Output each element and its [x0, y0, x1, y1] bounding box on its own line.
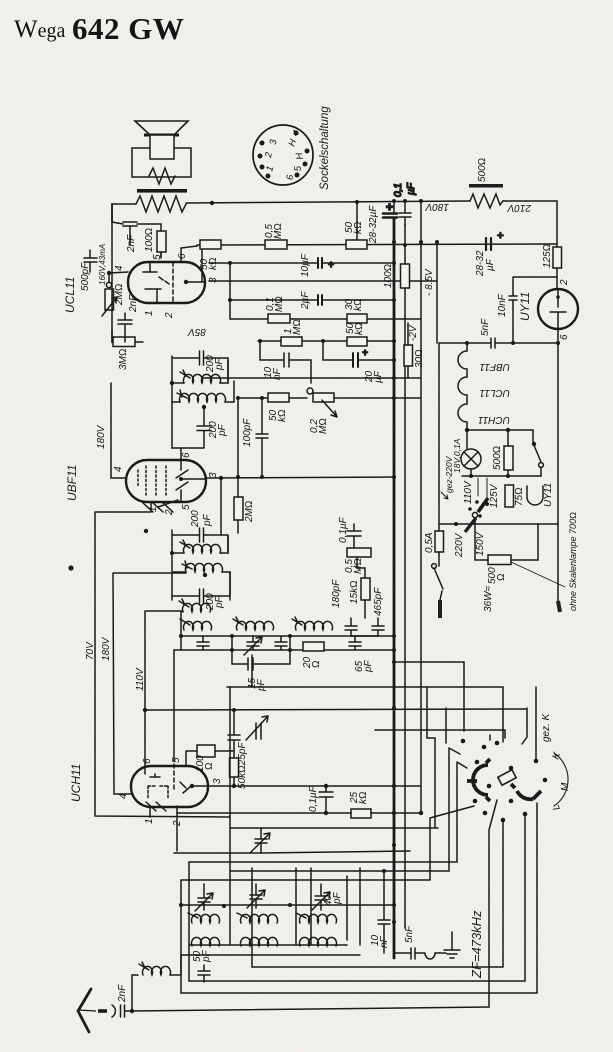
svg-text:1: 1 — [148, 506, 159, 512]
svg-text:180V: 180V — [101, 636, 112, 661]
resistor 50k vol — [268, 393, 289, 402]
svg-text:180V: 180V — [424, 201, 449, 212]
capacitor 100pF — [256, 396, 268, 479]
svg-text:UBF11: UBF11 — [65, 465, 79, 501]
trimmer cap L2 — [244, 636, 262, 655]
mains transformer 500ohm — [488, 555, 511, 565]
svg-text:85V: 85V — [187, 326, 206, 337]
svg-text:4: 4 — [113, 466, 124, 472]
svg-text:10nF: 10nF — [497, 293, 508, 317]
ant coil K bottom — [192, 937, 220, 946]
wire mains left — [440, 591, 442, 600]
svg-text:6: 6 — [142, 758, 153, 764]
capacitor 0,1uF UCH — [319, 786, 333, 813]
voltage tap wedge — [468, 498, 488, 518]
capacitor 0,1uF pair — [383, 182, 417, 226]
UBF11 heater hash — [143, 500, 178, 512]
UCH11 internal electrodes — [145, 757, 216, 798]
svg-text:Wega: Wega — [14, 16, 65, 43]
svg-text:6: 6 — [559, 334, 570, 340]
wire y300 seg — [230, 299, 394, 301]
svg-text:1: 1 — [144, 818, 155, 824]
transformer core bar — [137, 189, 187, 193]
capacitor 10uF — [318, 258, 334, 271]
svg-text:2: 2 — [559, 279, 570, 286]
svg-text:5nF: 5nF — [404, 925, 415, 943]
speaker cone mouth bar — [144, 134, 179, 137]
svg-text:UBF11: UBF11 — [480, 361, 510, 372]
svg-text:36W≈: 36W≈ — [483, 585, 494, 612]
svg-text:nF: nF — [272, 367, 283, 380]
svg-text:0,1µF: 0,1µF — [308, 785, 319, 812]
capacitor 10nF UY11 — [509, 277, 557, 343]
wire y708 — [145, 709, 527, 710]
capacitor pad L3 — [275, 636, 287, 650]
svg-text:125V: 125V — [489, 483, 500, 508]
capacitor 500pF UCL11 — [84, 250, 97, 272]
resistor 2Mohm AVC — [234, 497, 243, 520]
wire right edge power — [557, 343, 559, 524]
ant coil L bottom — [299, 937, 336, 946]
trimmer cap osc — [246, 716, 268, 740]
ant coil M top — [237, 913, 278, 923]
switch nest wire D — [189, 762, 467, 862]
resistor 20ohm — [303, 642, 324, 651]
rotary direction arrow — [441, 492, 448, 499]
svg-text:MΩ: MΩ — [292, 319, 303, 335]
speaker LS1 neck — [150, 135, 174, 159]
resistor 500ohm mains dropper bar — [469, 184, 503, 188]
pilot lamp — [461, 449, 481, 469]
svg-text:pF: pF — [332, 891, 343, 905]
svg-text:UY11: UY11 — [518, 292, 532, 321]
svg-text:75Ω: 75Ω — [514, 487, 525, 506]
capacitor 465pF — [372, 618, 384, 636]
volume pot line — [238, 397, 421, 399]
svg-text:100Ω: 100Ω — [383, 264, 394, 288]
svg-text:220V: 220V — [454, 532, 465, 558]
svg-text:0,5A: 0,5A — [424, 532, 435, 553]
capacitor pad L1 — [197, 636, 209, 650]
antenna coupling cap 2nF — [112, 975, 134, 1017]
resistor 50k mix — [230, 758, 239, 777]
vertical rail x407 — [404, 224, 406, 928]
svg-text:pF: pF — [217, 423, 228, 437]
svg-text:50kΩ25pF: 50kΩ25pF — [237, 742, 248, 789]
ground symbol — [444, 940, 460, 958]
UBF11 pin3 wire — [206, 477, 394, 535]
svg-text:Ω: Ω — [204, 762, 215, 770]
UBF11 internal electrodes — [138, 460, 206, 502]
UCH11 heater hash — [146, 802, 177, 851]
svg-text:500Ω: 500Ω — [477, 158, 488, 182]
capacitor 200pF IF1b — [172, 407, 211, 448]
svg-text:180pF: 180pF — [331, 579, 342, 608]
heater chain wire with humps — [458, 343, 467, 449]
resistor 30ohm bias — [404, 345, 413, 366]
wire HT top rail — [186, 201, 470, 203]
svg-text:0,1: 0,1 — [393, 183, 404, 197]
capacitor 50pF — [198, 965, 210, 982]
UCL11 internal electrodes — [143, 246, 205, 303]
band indicator arc — [554, 753, 568, 806]
chassis wire x112 upper — [111, 204, 113, 342]
bus line y245 — [197, 244, 557, 245]
svg-text:15kΩ: 15kΩ — [349, 580, 360, 604]
band bus y905 — [181, 904, 394, 906]
grid pot 2Mohm — [102, 271, 128, 316]
svg-text:2nF: 2nF — [126, 234, 137, 253]
pot wiper circle — [307, 388, 313, 394]
wire y263 seg — [209, 262, 394, 264]
wire mains transformer — [475, 518, 538, 560]
wire screen — [137, 224, 161, 258]
main HT vertical thick rail — [393, 218, 396, 958]
svg-text:100pF: 100pF — [242, 418, 253, 447]
wire y687 — [227, 686, 503, 688]
capacitor 200pF IF2b — [172, 572, 230, 603]
resistor 125ohm — [553, 247, 562, 268]
wire y476 row — [462, 475, 541, 477]
capacitor 5nF out — [411, 948, 415, 959]
wire UBF anode supply — [111, 383, 126, 478]
wire y524 row — [439, 523, 558, 525]
svg-text:µF: µF — [485, 258, 496, 271]
wire y650 — [174, 649, 394, 651]
bus line y341 — [258, 340, 394, 342]
wire mains right — [557, 524, 559, 601]
svg-text:pF: pF — [214, 357, 225, 371]
capacitor 10nF IF out — [378, 869, 390, 953]
ant coil L top — [296, 913, 336, 923]
connector x232 — [231, 636, 233, 650]
UY11 heater loop — [527, 486, 543, 505]
trimmer cap band1 — [195, 884, 213, 911]
band switch wiper bar — [498, 770, 516, 785]
svg-text:5nF: 5nF — [480, 318, 491, 336]
deep nest wire D1 — [489, 800, 497, 1007]
vertical rail x421 — [420, 201, 422, 813]
wire y853 — [174, 851, 410, 853]
wire x230 connector — [229, 263, 231, 319]
resistor 25k — [351, 809, 371, 818]
junction dot pin6 UCH — [143, 708, 147, 712]
UBF11 pin labels — [113, 452, 219, 516]
svg-text:160V,43mA: 160V,43mA — [98, 244, 107, 285]
resistor 150k — [347, 337, 367, 346]
antenna symbol — [78, 989, 107, 1032]
T2 wiring — [170, 356, 234, 448]
IF transformer T2 primary — [180, 370, 221, 383]
wire ground feed — [451, 932, 453, 940]
wire 125ohm to UY11 pin2 — [556, 268, 558, 289]
svg-text:+: + — [328, 260, 334, 271]
svg-text:- 8.5V: - 8.5V — [424, 268, 435, 296]
switch nest wire B — [427, 738, 435, 828]
band switch contact dots — [461, 739, 548, 823]
svg-text:UCH11: UCH11 — [69, 764, 83, 802]
wire 30ohm leads — [407, 323, 409, 378]
trimmer cap band3 40pF — [312, 884, 330, 910]
svg-text:MΩ: MΩ — [273, 223, 284, 239]
110V rail x145 — [145, 611, 183, 766]
svg-text:UCH11: UCH11 — [478, 414, 510, 425]
rectifier tube UY11 — [538, 289, 578, 329]
svg-text:0,1µF: 0,1µF — [338, 516, 349, 543]
125V tap lead — [486, 478, 488, 503]
svg-text:30Ω: 30Ω — [414, 349, 425, 368]
UCH11 pin labels — [118, 757, 223, 827]
svg-text:Sockelschaltung: Sockelschaltung — [319, 106, 331, 190]
wire 50k HT lead — [356, 202, 358, 240]
svg-text:28-32µF: 28-32µF — [368, 205, 379, 244]
socket pin labels — [263, 128, 306, 180]
capacitor 2uF — [318, 295, 322, 305]
primary winding zigzag R — [136, 196, 186, 212]
svg-text:642 GW: 642 GW — [72, 11, 184, 46]
svg-text:-2V: -2V — [408, 324, 419, 341]
resistor 50k HT — [346, 240, 367, 249]
svg-text:210V: 210V — [506, 202, 532, 213]
capacitor 5nF mains — [491, 338, 495, 348]
pot 0,2Mohm — [313, 393, 337, 417]
svg-text:gez. K: gez. K — [541, 712, 552, 742]
capacitor 15pF — [230, 648, 292, 687]
leader line ohne Skalenlampe — [511, 562, 565, 587]
hexode UCH11 — [131, 766, 208, 807]
wire vertical x230 — [229, 687, 231, 876]
180V rail x113 — [113, 573, 186, 794]
wire lamp row — [467, 430, 508, 476]
svg-text:nF: nF — [379, 935, 390, 948]
svg-text:180V: 180V — [96, 424, 107, 449]
svg-text:Ω: Ω — [496, 573, 507, 581]
deep nest wire D2 — [252, 820, 503, 967]
switch nest wire C — [230, 748, 460, 871]
switch S2 — [465, 428, 544, 476]
resistor 0,1Mohm — [268, 314, 290, 323]
resistor 15k osc — [361, 578, 370, 600]
UCL11 pin labels — [114, 253, 219, 319]
resistor 0,5Mohm — [265, 240, 287, 249]
bus line y281 — [209, 280, 437, 282]
svg-text:pF: pF — [363, 659, 374, 673]
capacitor 0,1uF AF — [347, 524, 361, 548]
svg-text:2MΩ: 2MΩ — [114, 283, 125, 306]
ink blemish dot — [68, 565, 73, 570]
antenna bottom line — [132, 1007, 489, 1011]
socket pin dots — [258, 131, 310, 179]
resistor 75ohm — [505, 485, 514, 507]
svg-text:3: 3 — [208, 277, 219, 283]
switch nest wire E — [181, 806, 474, 880]
svg-text:kΩ: kΩ — [353, 221, 364, 234]
svg-text:500Ω: 500Ω — [492, 446, 503, 470]
svg-text:kΩ: kΩ — [354, 322, 365, 335]
IF transformer T2 secondary — [177, 390, 226, 402]
svg-text:UY11: UY11 — [543, 483, 554, 507]
svg-text:2: 2 — [164, 509, 175, 516]
output transformer frame — [132, 148, 191, 177]
resistor 30k — [347, 314, 367, 323]
svg-text:3: 3 — [208, 472, 219, 478]
capacitor 200pF IF2a — [172, 528, 228, 553]
svg-text:µF: µF — [373, 370, 384, 383]
svg-text:MΩ: MΩ — [318, 418, 329, 434]
bus line y319 — [230, 318, 421, 320]
band filter bottom wires — [181, 945, 360, 955]
svg-text:Ω: Ω — [311, 660, 322, 668]
svg-text:2nF: 2nF — [117, 984, 128, 1003]
svg-text:MΩ: MΩ — [274, 296, 285, 312]
capacitor 10nF det — [258, 339, 311, 383]
svg-text:UCL11: UCL11 — [480, 387, 510, 398]
resistor 500ohm shunt — [504, 446, 513, 470]
deep nest wire D4 — [181, 803, 537, 993]
svg-text:10µF: 10µF — [300, 253, 311, 277]
diode-pentode UBF11 — [126, 460, 206, 502]
band switch right contact arc — [511, 784, 541, 799]
mains lead left stub — [438, 600, 442, 618]
svg-text:M: M — [560, 782, 571, 791]
triode-pentode UCL11 — [128, 262, 205, 303]
svg-text:6: 6 — [177, 253, 188, 259]
field coil zigzag inside frame — [149, 168, 175, 184]
svg-text:UCL11: UCL11 — [63, 277, 77, 313]
svg-text:1: 1 — [144, 310, 155, 316]
speaker LS1 cone — [135, 121, 188, 135]
AVC line y813 — [177, 812, 421, 814]
resistor 500ohm zigzag — [470, 194, 503, 208]
band coil L1 — [180, 619, 211, 630]
svg-text:kΩ: kΩ — [277, 409, 288, 422]
capacitor 65pF — [349, 636, 361, 650]
IF transformer T3 secondary — [182, 561, 223, 577]
svg-text:ohne Skalenlampe 700Ω: ohne Skalenlampe 700Ω — [568, 512, 578, 611]
70V rail x95 — [95, 502, 230, 817]
wire y662 — [394, 661, 464, 663]
ant coil M bottom — [240, 937, 277, 946]
svg-text:+: + — [362, 348, 368, 359]
wire y826 — [230, 827, 438, 829]
svg-text:pF: pF — [202, 513, 213, 527]
wire osc coil left connector — [180, 612, 182, 650]
ant input coil — [132, 955, 181, 975]
110V tap lead — [477, 478, 479, 496]
capacitor 25pF — [228, 708, 240, 758]
wire speaker loop left — [112, 204, 136, 222]
svg-text:5: 5 — [171, 757, 182, 763]
IF transformer T3 primary — [180, 540, 221, 553]
svg-text:2nF: 2nF — [128, 294, 139, 313]
wire y636 — [180, 635, 394, 637]
wire 210V to rectifier — [503, 201, 557, 247]
svg-text:+: + — [386, 200, 393, 214]
oscillator coil — [179, 599, 211, 612]
svg-text:2: 2 — [172, 820, 183, 827]
switch nest wire A — [375, 730, 505, 740]
svg-text:5: 5 — [152, 254, 163, 260]
resistor 50k grid2 — [200, 240, 221, 249]
resistor 0,5Mohm AF — [347, 548, 371, 557]
svg-text:110V: 110V — [135, 667, 146, 691]
anode line y786 — [216, 785, 421, 787]
band switch left contact arc — [467, 759, 490, 801]
junction dot stray — [144, 529, 148, 533]
bus line y378 — [203, 377, 421, 379]
wire vertical x174 — [173, 650, 175, 757]
svg-text:MΩ: MΩ — [353, 558, 364, 574]
junction dots rails — [392, 199, 439, 924]
svg-text:2MΩ: 2MΩ — [244, 500, 255, 523]
svg-text:4: 4 — [118, 793, 129, 799]
svg-text:125Ω: 125Ω — [542, 244, 553, 268]
tube socket circle — [253, 125, 313, 185]
capacitor 20uF + — [321, 339, 394, 367]
svg-text:18V,0,1A: 18V,0,1A — [452, 438, 462, 473]
svg-text:70V: 70V — [85, 641, 96, 660]
svg-text:6: 6 — [181, 452, 192, 458]
resistor 3Mohm — [113, 337, 135, 347]
band filter box verticals — [181, 862, 360, 993]
svg-text:150V: 150V — [475, 531, 486, 556]
resistor 1Mohm — [281, 337, 302, 346]
selector wiper — [465, 512, 478, 532]
connector x290 — [289, 636, 291, 650]
resistor 100ohm screen — [157, 231, 166, 252]
mains switch left — [432, 564, 443, 589]
svg-text:pF: pF — [256, 678, 267, 692]
capacitor 2nF grid — [118, 313, 132, 334]
capacitor 180pF — [345, 618, 357, 636]
wire mixer grid — [186, 751, 234, 786]
mains lead right stub — [558, 601, 560, 612]
wire osc cluster — [351, 557, 378, 636]
svg-text:3MΩ: 3MΩ — [118, 348, 129, 370]
svg-text:kΩ: kΩ — [353, 298, 364, 311]
UBF11 pin6 wire — [180, 448, 182, 460]
svg-text:465pF: 465pF — [373, 587, 384, 616]
junction dots heater rail — [511, 341, 515, 345]
svg-text:6: 6 — [285, 174, 296, 180]
svg-text:µF: µF — [406, 182, 417, 195]
band coil L3 — [292, 617, 333, 630]
T3 wiring — [170, 530, 230, 600]
switch feed wires up — [427, 662, 536, 760]
band coil L2 — [233, 617, 274, 630]
wire fuse — [438, 343, 440, 566]
deep nest wire D3 — [189, 814, 525, 981]
electrolytic 28-32uF right — [486, 230, 504, 250]
wire heater top rail — [439, 329, 558, 343]
capacitor 200pF IF1a — [172, 351, 228, 383]
tuning cap main — [250, 828, 270, 853]
wire 2Mohm — [237, 398, 239, 533]
svg-text:4: 4 — [114, 265, 125, 271]
ant coil K top — [188, 913, 220, 923]
svg-text:+: + — [497, 230, 504, 242]
svg-text:5: 5 — [181, 504, 192, 510]
svg-text:500pF: 500pF — [80, 262, 91, 291]
capacitor 2nF anode — [112, 204, 137, 245]
svg-text:2: 2 — [164, 312, 175, 319]
svg-text:100Ω: 100Ω — [144, 228, 155, 252]
wire pin6 to y281 — [201, 249, 203, 281]
svg-text:3: 3 — [212, 778, 223, 784]
resistor 100ohm cathode — [401, 264, 410, 288]
chassis hook — [394, 953, 446, 959]
resistor 100ohm mix — [197, 745, 215, 757]
